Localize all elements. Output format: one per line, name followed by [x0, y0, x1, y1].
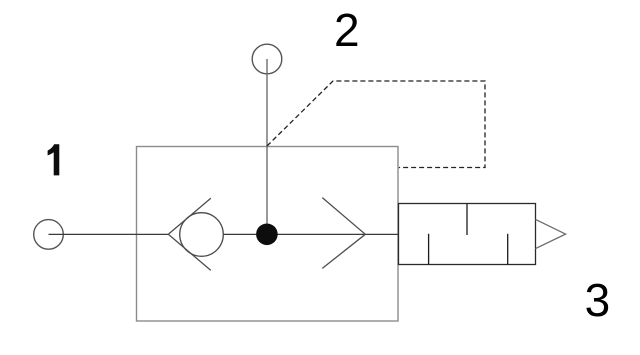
silencer baffle top — [466, 204, 468, 236]
flow arrow chevron — [322, 198, 365, 269]
silencer baffle bottom left — [428, 234, 430, 265]
exhaust triangle — [536, 219, 566, 248]
wire port 1 to check valve — [49, 233, 169, 235]
pilot line dashed — [267, 81, 485, 168]
junction node dot — [256, 224, 278, 246]
wire check valve to flow arrow — [223, 233, 365, 235]
silencer body rectangle — [399, 204, 536, 265]
silencer baffle bottom right — [507, 234, 509, 265]
wire arrow to port 3 exhaust — [365, 233, 398, 235]
port 1 circle — [34, 220, 64, 250]
port 2 circle — [252, 44, 282, 74]
wire port 2 to node — [266, 59, 268, 234]
label port 1 — [48, 144, 60, 175]
valve body rectangle — [137, 147, 399, 322]
check valve seat chevron — [168, 198, 211, 270]
svg-text:3: 3 — [585, 274, 611, 326]
svg-text:2: 2 — [334, 4, 360, 56]
check valve ball circle — [180, 213, 224, 257]
